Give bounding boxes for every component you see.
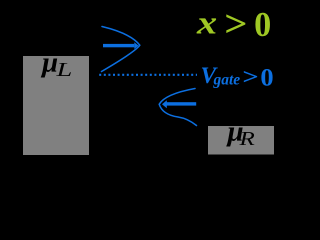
right lead rectangle (208, 126, 274, 155)
svg-text:x: x (196, 4, 217, 41)
svg-text:0: 0 (260, 63, 273, 91)
svg-text:R: R (238, 127, 255, 149)
label x > 0 (196, 4, 271, 45)
left-moving arrow (162, 100, 196, 108)
bottom trajectory arc (opens right) (159, 89, 196, 126)
svg-text:μ: μ (40, 47, 58, 79)
right-moving arrow (103, 42, 139, 49)
svg-text:>: > (224, 4, 247, 45)
label V_gate > 0 (201, 63, 274, 92)
gate potential dotted line (99, 74, 197, 76)
svg-text:gate: gate (213, 72, 241, 89)
top trajectory arc (opens left) (102, 27, 140, 72)
svg-text:L: L (55, 59, 72, 81)
label mu_L (40, 47, 72, 81)
svg-text:>: > (242, 65, 258, 89)
svg-text:0: 0 (254, 4, 271, 44)
left lead rectangle (23, 56, 89, 155)
label mu_R (226, 116, 255, 150)
